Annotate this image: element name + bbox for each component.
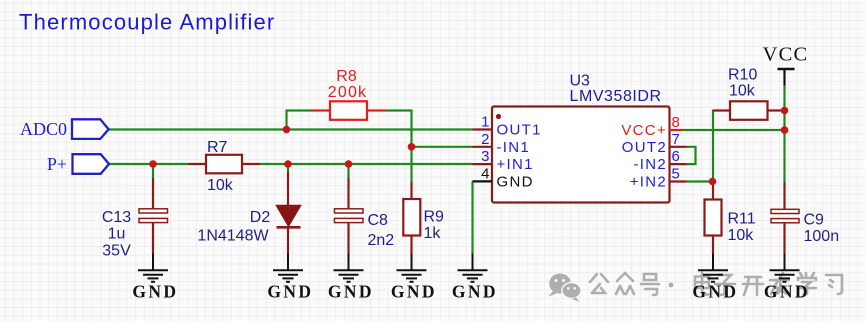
svg-text:5: 5	[672, 166, 680, 183]
svg-text:1k: 1k	[424, 225, 442, 242]
svg-text:GND: GND	[764, 282, 810, 302]
svg-text:10k: 10k	[728, 227, 755, 244]
U3 pin 4 GND	[473, 165, 534, 190]
wire net ADC0 horizontal	[109, 128, 473, 130]
junction P+ / C13	[149, 160, 157, 168]
diode D2	[277, 172, 301, 254]
resistor R8	[311, 101, 387, 120]
wire R8 right loop vertical to R9	[410, 110, 412, 183]
svg-text:10k: 10k	[729, 83, 756, 100]
power VCC	[763, 44, 809, 86]
wire net OUT2--IN2 loop	[687, 147, 696, 164]
wire R8 top right horizontal	[387, 109, 412, 111]
svg-text:LMV358IDR: LMV358IDR	[570, 88, 662, 105]
capacitor C9	[771, 182, 799, 254]
ground C8	[328, 254, 374, 302]
svg-text:35V: 35V	[102, 242, 131, 259]
svg-text:GND: GND	[132, 282, 178, 302]
U3 pin 6 -IN2	[633, 148, 686, 173]
svg-text:VCC: VCC	[763, 44, 809, 66]
svg-text:GND: GND	[391, 282, 437, 302]
U3 pin 7 OUT2	[622, 131, 687, 156]
junction VCC / R10	[781, 107, 789, 115]
resistor R11	[705, 182, 722, 254]
capacitor C13	[139, 178, 168, 254]
wire net +IN2 horizontal	[687, 180, 713, 182]
wire R8 top left horizontal	[286, 109, 312, 111]
svg-text:VCC+: VCC+	[621, 122, 667, 139]
junction P+ / D2	[284, 160, 292, 168]
svg-text:4: 4	[481, 165, 489, 182]
svg-text:R10: R10	[728, 67, 757, 84]
svg-text:R8: R8	[336, 68, 357, 85]
junction P+ / C8	[345, 160, 353, 168]
svg-text:GND: GND	[692, 282, 738, 302]
svg-text:-IN2: -IN2	[633, 156, 667, 173]
svg-text:C13: C13	[102, 209, 131, 226]
ground R9	[391, 254, 437, 302]
svg-text:100n: 100n	[804, 228, 840, 245]
svg-text:8: 8	[672, 114, 680, 131]
wire R10 left vertical	[712, 110, 714, 182]
junction +IN2 / R10 / R11	[709, 178, 717, 186]
wire D2 stub vertical	[287, 164, 289, 172]
svg-text:1u: 1u	[108, 226, 126, 243]
svg-text:R11: R11	[728, 211, 756, 228]
wire C8 stub vertical	[347, 164, 349, 178]
wire R8 left loop vertical	[285, 111, 287, 131]
svg-text:+IN1: +IN1	[497, 156, 534, 173]
svg-text:+IN2: +IN2	[630, 174, 667, 191]
U3 pin 2 -IN1	[473, 131, 531, 156]
wire net P+ horizontal left	[109, 163, 188, 165]
svg-text:GND: GND	[497, 173, 534, 190]
U3 pin 1 marker dot	[496, 114, 501, 119]
U3 pin 3 +IN1	[473, 148, 534, 173]
resistor R7	[188, 155, 260, 174]
svg-text:2n2: 2n2	[368, 232, 395, 249]
svg-text:200k: 200k	[328, 84, 368, 101]
U3 pin 5 +IN2	[630, 166, 687, 191]
port ADC0	[20, 119, 109, 139]
resistor R9	[403, 182, 420, 254]
svg-text:-IN1: -IN1	[497, 139, 531, 156]
wire net -IN1 horizontal	[412, 146, 473, 148]
svg-text:GND: GND	[267, 282, 313, 302]
svg-text:Thermocouple Amplifier: Thermocouple Amplifier	[19, 10, 275, 35]
junction ADC0 / R8 loop	[283, 126, 291, 134]
svg-text:C9: C9	[804, 212, 825, 229]
svg-text:OUT2: OUT2	[622, 139, 667, 156]
wire net P+ horizontal right	[260, 163, 473, 165]
svg-text:R9: R9	[424, 209, 445, 226]
ground U3 pin4	[452, 254, 498, 302]
svg-text:GND: GND	[328, 282, 374, 302]
resistor R10	[713, 101, 785, 120]
svg-text:GND: GND	[452, 282, 498, 302]
junction -IN1 / R8 / R9	[408, 143, 416, 151]
svg-text:P+: P+	[47, 154, 67, 174]
svg-text:OUT1: OUT1	[497, 122, 542, 139]
junction VCC / pin8	[781, 126, 789, 134]
ground R11	[692, 254, 738, 302]
svg-text:3: 3	[481, 148, 489, 165]
svg-text:7: 7	[672, 131, 680, 148]
wire C13 stub vertical	[152, 164, 154, 178]
svg-text:ADC0: ADC0	[20, 119, 67, 139]
svg-text:U3: U3	[570, 73, 591, 90]
U3 pin 1 OUT1	[473, 114, 542, 139]
svg-text:1: 1	[481, 114, 489, 131]
ground C13	[132, 254, 178, 302]
port P+	[47, 154, 109, 174]
svg-text:R7: R7	[207, 139, 228, 156]
svg-text:2: 2	[481, 131, 489, 148]
svg-text:D2: D2	[250, 209, 271, 226]
op-amp U3 LMV358IDR body	[492, 107, 670, 203]
wire U3 pin4 to ground vertical	[471, 181, 473, 253]
U3 pin 8 VCC+	[621, 114, 683, 139]
svg-text:C8: C8	[368, 212, 389, 229]
svg-text:10k: 10k	[207, 177, 234, 194]
ground D2	[267, 254, 313, 302]
svg-text:1N4148W: 1N4148W	[197, 228, 269, 245]
wire VCC vertical	[783, 86, 785, 183]
svg-text:6: 6	[672, 148, 680, 165]
ground C9	[764, 254, 810, 302]
wire net VCC pin8 horizontal	[683, 129, 785, 131]
capacitor C8	[335, 178, 364, 254]
